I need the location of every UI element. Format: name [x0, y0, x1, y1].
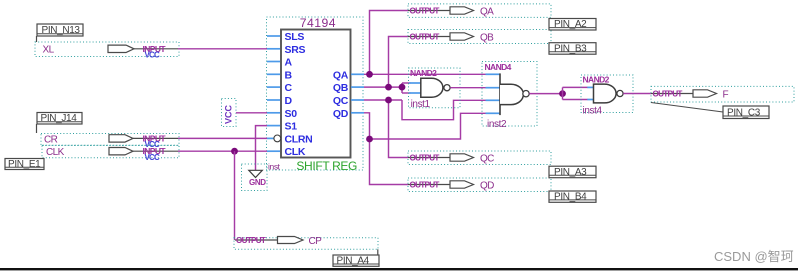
svg-text:A: A	[285, 57, 293, 69]
pin stubs right (QA,QB,QC,QD)	[351, 74, 364, 113]
svg-text:inst1: inst1	[411, 99, 431, 110]
svg-text:inst4: inst4	[583, 105, 603, 116]
wire VCC to S0	[236, 112, 267, 114]
wire to inst4 inputs	[563, 87, 588, 99]
svg-text:PIN_A3: PIN_A3	[554, 167, 587, 178]
svg-text:74194: 74194	[300, 16, 336, 30]
junction CLK/CP	[231, 148, 238, 155]
svg-text:QA: QA	[333, 69, 349, 81]
svg-text:PIN_E1: PIN_E1	[8, 159, 41, 170]
wire NAND2 inst1 output to NAND4	[450, 87, 485, 89]
pin label box PIN_A3	[549, 166, 596, 178]
svg-text:QB: QB	[333, 82, 349, 94]
svg-text:PIN_J14: PIN_J14	[41, 113, 78, 124]
svg-text:F: F	[723, 89, 729, 100]
svg-text:SHIFT REG: SHIFT REG	[296, 159, 357, 173]
svg-text:CR: CR	[44, 134, 58, 145]
svg-text:NAND4: NAND4	[485, 62, 512, 72]
svg-text:VCC: VCC	[145, 51, 161, 60]
svg-text:inst2: inst2	[487, 119, 507, 130]
input pin XL	[35, 42, 179, 60]
wire QB net	[364, 37, 411, 94]
svg-text:QC: QC	[333, 95, 349, 107]
pin label box PIN_A2	[549, 19, 596, 31]
svg-text:OUTPUT: OUTPUT	[410, 181, 440, 190]
svg-text:B: B	[285, 69, 293, 81]
svg-text:SLS: SLS	[285, 31, 305, 43]
svg-text:PIN_C3: PIN_C3	[727, 108, 761, 119]
nand2 U inst4	[581, 74, 633, 116]
svg-text:OUTPUT: OUTPUT	[410, 7, 440, 16]
nand2 U inst1	[409, 68, 461, 110]
pin label box PIN_N13	[37, 24, 84, 42]
svg-text:S1: S1	[285, 121, 298, 133]
wire CLK to chip CLK	[178, 150, 267, 152]
leader line to PIN_C3	[651, 103, 723, 113]
bottom rule	[0, 268, 798, 270]
ground symbol GND	[242, 164, 268, 191]
wire QA net	[364, 11, 486, 75]
output pin F	[651, 86, 794, 102]
74194 shift register U1 body	[268, 16, 357, 173]
svg-text:PIN_A2: PIN_A2	[554, 19, 587, 30]
output pin QB	[408, 30, 551, 44]
svg-text:C: C	[285, 82, 293, 94]
input pin CLK	[42, 145, 179, 161]
svg-text:VCC: VCC	[224, 104, 234, 124]
chip pin names	[285, 31, 349, 158]
output pin QA	[408, 4, 551, 18]
svg-text:QB: QB	[480, 32, 494, 43]
wire S1 to GND	[256, 126, 268, 170]
pin label box PIN_J14	[37, 113, 83, 134]
svg-text:inst: inst	[268, 162, 281, 172]
wire inst4 output to F	[623, 93, 651, 95]
wire QD net	[364, 113, 486, 185]
junction QB a	[385, 84, 392, 91]
wire XL to SRS	[178, 48, 267, 50]
svg-text:QD: QD	[480, 180, 494, 191]
svg-text:PIN_N13: PIN_N13	[42, 25, 81, 36]
junction QB b	[399, 84, 406, 91]
svg-text:CSDN @智珂: CSDN @智珂	[714, 249, 794, 264]
output pin QC	[408, 151, 551, 165]
svg-text:CLK: CLK	[285, 146, 306, 158]
svg-text:XL: XL	[43, 45, 55, 56]
wire NAND4 output	[529, 93, 563, 95]
svg-text:S0: S0	[285, 108, 298, 120]
wire QC net	[364, 100, 486, 158]
junction QC	[385, 97, 392, 104]
nand4 U inst2	[482, 62, 537, 131]
input pin CR	[41, 133, 179, 149]
pin label box PIN_B4	[549, 191, 596, 203]
svg-text:PIN_B4: PIN_B4	[554, 192, 587, 203]
svg-text:VCC: VCC	[145, 153, 161, 162]
pin label box PIN_C3	[723, 106, 769, 119]
power symbol VCC (rotated)	[222, 99, 237, 127]
svg-text:NAND2: NAND2	[583, 74, 610, 84]
svg-text:D: D	[285, 95, 293, 107]
svg-text:OUTPUT: OUTPUT	[236, 236, 266, 245]
svg-text:GND: GND	[249, 178, 266, 187]
svg-text:PIN_B3: PIN_B3	[554, 43, 587, 54]
svg-text:CLK: CLK	[46, 147, 65, 158]
selection box chip U1	[267, 17, 364, 170]
pin label box PIN_A4	[333, 255, 379, 267]
svg-text:NAND2: NAND2	[410, 68, 437, 78]
svg-text:CP: CP	[309, 236, 323, 247]
svg-text:SRS: SRS	[285, 44, 306, 56]
svg-text:QA: QA	[480, 6, 494, 17]
wire CLK down to CP output	[234, 151, 236, 240]
CLRN inversion bubble	[274, 135, 281, 142]
svg-text:CLRN: CLRN	[285, 133, 313, 145]
svg-text:QC: QC	[480, 153, 494, 164]
pin stubs left (SLS,SRS,A,B,C,D,S0,S1,CLRN,CLK)	[267, 36, 280, 151]
svg-text:OUTPUT: OUTPUT	[410, 33, 440, 42]
svg-text:OUTPUT: OUTPUT	[653, 90, 683, 99]
junction QD	[366, 136, 373, 143]
junction NAND4 out	[559, 90, 566, 97]
output pin QD	[408, 178, 551, 192]
svg-text:OUTPUT: OUTPUT	[410, 154, 440, 163]
output pin CP	[234, 236, 378, 250]
pin label box PIN_B3	[549, 43, 596, 55]
wire CR to CLRN	[178, 137, 267, 139]
leader line to PIN_A4	[377, 249, 379, 255]
pin label box PIN_E1	[5, 159, 44, 171]
svg-text:PIN_A4: PIN_A4	[337, 256, 370, 267]
junction QA	[366, 71, 373, 78]
svg-text:QD: QD	[333, 108, 349, 120]
